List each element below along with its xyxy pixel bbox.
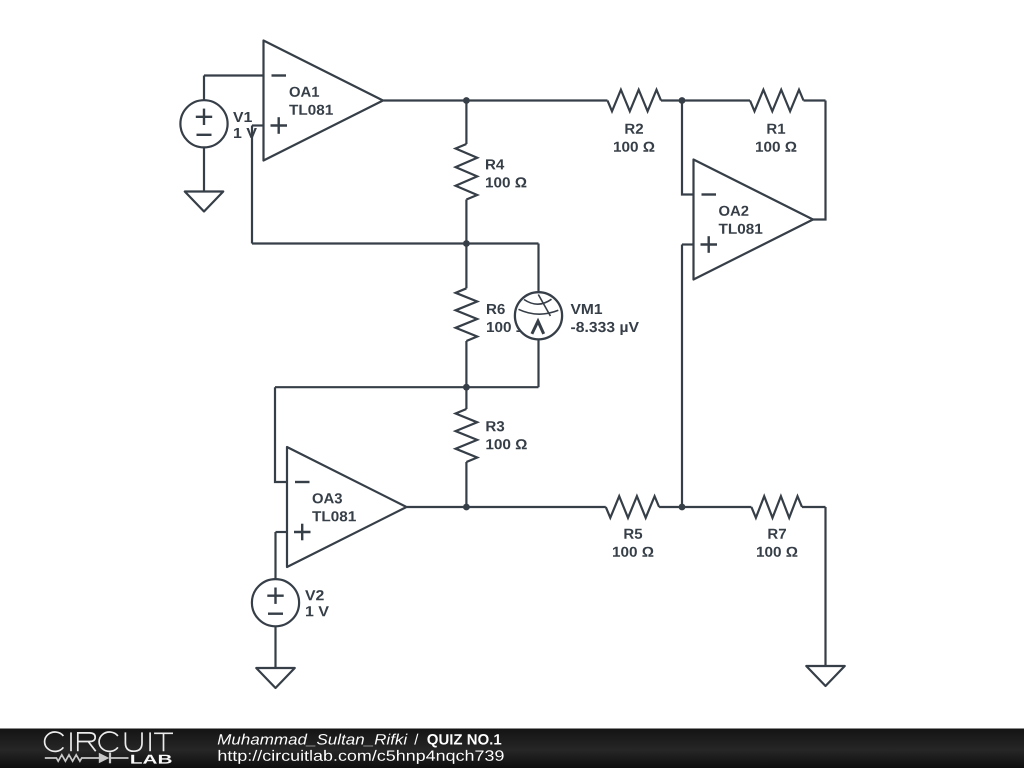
wire bus C bbox=[275, 386, 539, 388]
logo resistor squiggle bbox=[45, 755, 129, 761]
wire R6 top lead bbox=[465, 244, 467, 289]
wire R3 top lead bbox=[465, 387, 467, 409]
footer url line bbox=[219, 750, 504, 764]
CircuitLab logo word CIRCUIT (hand drawn thin) bbox=[45, 732, 173, 751]
label R1 value bbox=[767, 124, 785, 134]
label R3 value bbox=[486, 421, 504, 431]
footer title: user name bbox=[218, 734, 408, 747]
label OA1 bbox=[290, 87, 320, 97]
node OA1 output / R4 bbox=[463, 97, 470, 104]
label V2 value bbox=[305, 590, 324, 600]
wire OA2 + to node D bbox=[681, 245, 683, 508]
node A: R2-R1-OA2 inverting bbox=[679, 97, 686, 104]
node C: R6/R3 junction bbox=[463, 384, 470, 391]
node D: R5-R7-OA2 noninverting bbox=[679, 504, 686, 511]
wire R4 bottom lead bbox=[465, 200, 467, 244]
footer title: QUIZ NO.1 bbox=[427, 734, 501, 748]
wire V1 negative lead bbox=[203, 147, 205, 191]
wire OA3 noninverting stub bbox=[276, 531, 288, 533]
wire OA3 inverting feedback bbox=[275, 387, 287, 482]
op-amp OA3 bbox=[287, 447, 407, 567]
wire VM1 top lead bbox=[537, 244, 539, 293]
label V1 value bbox=[233, 112, 252, 122]
footer title: separator slash bbox=[414, 734, 418, 745]
node OA3 output / R3 bbox=[463, 504, 470, 511]
wire R5 to node D bbox=[659, 506, 751, 508]
wire OA3 output bbox=[407, 506, 606, 508]
wire OA1 + feedback drop bbox=[251, 126, 253, 244]
wire V1 positive lead bbox=[203, 76, 205, 101]
wire V2 top lead bbox=[274, 532, 276, 579]
label R4 value bbox=[486, 159, 504, 169]
label R5 value bbox=[624, 529, 642, 539]
ground below V1 bbox=[185, 192, 224, 212]
label R6 value bbox=[487, 304, 505, 314]
resistor R1 bbox=[750, 90, 804, 112]
wire R1 right lead bbox=[804, 99, 826, 101]
ground below V2 bbox=[256, 668, 295, 688]
label OA2 bbox=[719, 206, 748, 216]
wire V1 top to OA1 inverting input bbox=[204, 74, 264, 76]
wire OA2 noninverting stub bbox=[682, 243, 694, 245]
wire to ground right bbox=[824, 507, 826, 666]
logo diode bbox=[99, 753, 110, 764]
wire OA1 noninverting stub bbox=[252, 124, 264, 126]
wire V2 bottom lead bbox=[274, 626, 276, 668]
voltage source V1 bbox=[180, 100, 227, 147]
resistor R2 bbox=[608, 90, 662, 112]
wire R4 top lead bbox=[465, 101, 467, 145]
label R7 value bbox=[768, 529, 786, 539]
resistor R4 bbox=[456, 144, 478, 200]
op-amp OA2 bbox=[694, 160, 814, 280]
wire VM1 bottom lead bbox=[537, 339, 539, 387]
label VM1 reading bbox=[571, 304, 603, 314]
resistor R6 bbox=[456, 288, 478, 341]
node B: R4/R6 junction bbox=[463, 240, 470, 247]
label OA3 bbox=[313, 493, 342, 503]
wire R2 to node A bbox=[661, 99, 750, 101]
wire OA2 output feedback bbox=[813, 101, 826, 220]
label R2 value bbox=[625, 124, 643, 134]
wire R7 right lead bbox=[802, 506, 826, 508]
resistor R5 bbox=[606, 496, 659, 518]
resistor R3 bbox=[456, 409, 478, 462]
voltage source V2 bbox=[252, 579, 299, 626]
op-amp OA1 bbox=[264, 41, 384, 161]
CircuitLab logo word LAB bbox=[131, 755, 171, 764]
wire node A to OA2 inverting input bbox=[682, 101, 694, 195]
wire OA1 output bbox=[384, 99, 608, 101]
resistor R7 bbox=[751, 496, 802, 518]
voltmeter VM1 (face covers R6 omega) bbox=[515, 292, 562, 339]
wire middle bus B bbox=[252, 242, 539, 244]
wire R3 bottom lead bbox=[465, 462, 467, 507]
ground bottom right bbox=[806, 666, 845, 686]
wire R6 bottom lead bbox=[465, 341, 467, 387]
